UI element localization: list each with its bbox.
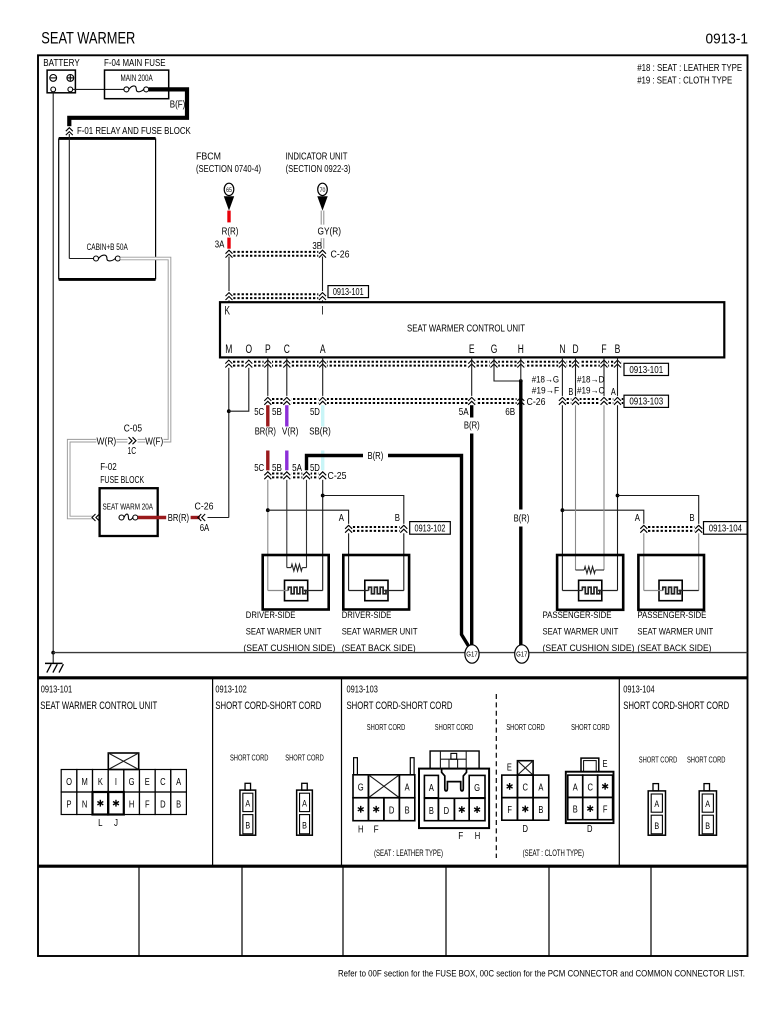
svg-text:#18→G: #18→G — [532, 374, 559, 384]
label seat cloth type — [523, 848, 584, 858]
svg-text:E: E — [469, 344, 475, 356]
svg-text:L: L — [98, 818, 103, 829]
connector C-26 pin 6A — [195, 501, 214, 535]
thermostat passenger cushion — [576, 567, 605, 574]
wire pin P stub — [267, 357, 269, 397]
junction B branch — [616, 494, 620, 498]
connector C-26 row (5C 5B 5D 5A 6B) — [264, 396, 546, 408]
svg-text:G17: G17 — [516, 650, 527, 659]
svg-text:F: F — [601, 344, 606, 356]
svg-text:FBCM: FBCM — [196, 152, 221, 163]
svg-text:D: D — [572, 344, 578, 356]
svg-text:F-04 MAIN FUSE: F-04 MAIN FUSE — [104, 58, 166, 69]
svg-text:N: N — [559, 344, 565, 356]
heater element driver back — [349, 580, 404, 600]
svg-text:F: F — [458, 831, 463, 842]
svg-text:B: B — [429, 805, 434, 817]
connector C-05 pin 1C — [124, 422, 142, 457]
svg-text:A: A — [611, 387, 616, 398]
svg-text:B: B — [538, 804, 543, 816]
svg-text:SEAT WARMER UNIT: SEAT WARMER UNIT — [637, 627, 713, 637]
wire B(F) battery feed — [69, 89, 187, 127]
svg-text:(SEAT CUSHION SIDE): (SEAT CUSHION SIDE) — [543, 643, 635, 653]
svg-text:5B: 5B — [272, 462, 282, 474]
svg-text:1C: 1C — [128, 445, 137, 457]
svg-text:B: B — [615, 344, 621, 356]
wire B branch to connector B 0913-104 — [618, 496, 699, 525]
wire 6B B(R) H pin to ground — [505, 381, 529, 646]
wire K to control unit — [228, 257, 230, 303]
svg-text:A: A — [339, 512, 344, 524]
svg-text:FUSE BLOCK: FUSE BLOCK — [100, 474, 144, 486]
svg-text:B: B — [245, 820, 250, 831]
svg-text:A: A — [429, 782, 434, 794]
cloth male connector 0913-103 — [566, 758, 614, 835]
svg-text:DRIVER-SIDE: DRIVER-SIDE — [246, 610, 296, 620]
indicator unit module — [286, 152, 351, 175]
svg-text:B: B — [573, 804, 578, 816]
svg-text:E: E — [145, 776, 150, 788]
svg-text:B(F): B(F) — [170, 99, 186, 111]
svg-text:SB(R): SB(R) — [309, 426, 331, 438]
svg-text:C-26: C-26 — [527, 396, 546, 408]
svg-text:B: B — [705, 821, 710, 832]
svg-text:BR(R): BR(R) — [255, 426, 276, 438]
connector row 0913-101 top (K I) — [225, 286, 369, 301]
wire B(F) inside F-01 to fuse — [69, 134, 93, 259]
svg-text:SHORT CORD-SHORT CORD: SHORT CORD-SHORT CORD — [347, 700, 453, 712]
svg-text:6A: 6A — [200, 522, 210, 534]
svg-text:B(R): B(R) — [368, 450, 384, 462]
svg-text:0913-102: 0913-102 — [415, 524, 446, 535]
wire pin D stub — [575, 357, 577, 397]
svg-text:G: G — [129, 776, 135, 788]
driver-side seat warmer unit (seat back side) — [342, 555, 418, 653]
svg-text:F-02: F-02 — [100, 461, 117, 473]
battery — [43, 58, 80, 93]
svg-text:H: H — [475, 831, 481, 842]
wire pin G branch to H — [494, 357, 521, 381]
svg-text:5D: 5D — [310, 406, 320, 418]
svg-text:W(F): W(F) — [145, 435, 163, 447]
svg-text:SEAT WARMER CONTROL UNIT: SEAT WARMER CONTROL UNIT — [407, 322, 525, 334]
fuse CABIN+B 50A — [87, 242, 128, 261]
svg-text:SHORT CORD: SHORT CORD — [367, 722, 406, 732]
svg-text:G: G — [491, 344, 498, 356]
wire A into passenger back unit — [643, 533, 645, 590]
wire B(R) from C-25 5A to ground — [292, 450, 469, 646]
junction 5C branch — [266, 508, 270, 512]
leather female connector 0913-103 — [353, 758, 415, 836]
short cord connector A/B right 0913-104 — [699, 784, 716, 836]
connector 65 FBCM — [224, 183, 234, 210]
svg-text:(SEAT : LEATHER TYPE): (SEAT : LEATHER TYPE) — [374, 848, 443, 858]
passenger-side seat warmer unit (seat cushion side) — [543, 555, 635, 653]
svg-text:INDICATOR UNIT: INDICATOR UNIT — [286, 152, 348, 163]
svg-text:(SEAT : CLOTH TYPE): (SEAT : CLOTH TYPE) — [523, 848, 584, 858]
svg-text:MAIN 200A: MAIN 200A — [121, 73, 153, 83]
wire 5C branch to connector A 0913-102 — [268, 510, 349, 525]
label seat leather type — [374, 848, 443, 858]
svg-text:B: B — [568, 387, 573, 398]
fuse F-04 MAIN FUSE MAIN 200A — [104, 58, 169, 99]
svg-text:#18→D: #18→D — [577, 374, 605, 384]
svg-text:A: A — [538, 782, 543, 794]
svg-text:0913-103: 0913-103 — [347, 685, 379, 696]
wire F to thermostat — [603, 405, 605, 570]
ground G17 driver — [465, 645, 479, 663]
leather male connector 0913-103 — [419, 751, 489, 842]
svg-text:B(R): B(R) — [514, 512, 530, 524]
wire pin F stub — [603, 357, 605, 397]
svg-text:(SEAT BACK SIDE): (SEAT BACK SIDE) — [342, 643, 416, 653]
svg-text:BR(R): BR(R) — [168, 512, 189, 524]
svg-text:B: B — [689, 512, 694, 524]
heater element passenger cushion — [562, 580, 617, 600]
panel 0913-101 seat warmer control unit connector — [40, 685, 186, 829]
svg-text:A: A — [320, 344, 326, 356]
svg-text:0913-102: 0913-102 — [215, 685, 246, 696]
svg-text:E: E — [507, 762, 512, 773]
svg-text:SEAT WARMER UNIT: SEAT WARMER UNIT — [246, 627, 322, 637]
svg-text:PASSENGER-SIDE: PASSENGER-SIDE — [637, 610, 706, 620]
svg-text:B: B — [176, 798, 181, 810]
wire N branch to connector A 0913-104 — [562, 510, 643, 525]
connector row 0913-101 bottom — [225, 359, 669, 376]
wire 5D SB(R) A pin — [309, 405, 331, 474]
svg-text:SEAT WARMER: SEAT WARMER — [41, 29, 135, 48]
ground symbol chassis — [45, 653, 63, 673]
svg-text:A: A — [405, 781, 410, 793]
svg-text:D: D — [587, 824, 593, 835]
wire I to control unit — [322, 257, 324, 303]
passenger-side seat warmer unit (seat back side) — [637, 555, 713, 653]
wire GY(R) pin 3B — [312, 211, 341, 252]
svg-text:SHORT CORD: SHORT CORD — [687, 755, 726, 765]
junction N branch — [561, 508, 565, 512]
wire B into driver back unit — [403, 533, 405, 590]
svg-text:A: A — [654, 799, 659, 810]
svg-text:V(R): V(R) — [282, 426, 298, 438]
svg-text:70: 70 — [320, 187, 326, 194]
wire W(R)/W(F) white wire from CABIN+B fuse to F-02 — [69, 259, 170, 518]
wire battery negative to ground — [51, 92, 55, 655]
svg-text:SEAT WARMER UNIT: SEAT WARMER UNIT — [543, 627, 619, 637]
wire B into passenger back unit — [698, 533, 700, 590]
svg-text:H: H — [129, 798, 135, 810]
svg-text:F: F — [374, 825, 379, 836]
driver-side seat warmer unit (seat cushion side) — [243, 555, 335, 653]
svg-text:C-25: C-25 — [328, 470, 347, 482]
svg-text:5A: 5A — [459, 406, 469, 418]
svg-text:A: A — [573, 781, 578, 793]
svg-text:0913-103: 0913-103 — [629, 397, 663, 408]
panel 0913-102 short cord-short cord — [215, 685, 323, 836]
svg-text:5C: 5C — [254, 462, 264, 474]
svg-text:D: D — [160, 798, 166, 810]
svg-text:H: H — [518, 344, 524, 356]
svg-text:C: C — [284, 344, 290, 356]
junction M/O — [227, 409, 231, 413]
svg-text:F-01 RELAY AND FUSE BLOCK: F-01 RELAY AND FUSE BLOCK — [77, 125, 191, 137]
svg-text:M: M — [82, 776, 88, 788]
connector 0913-102 row A B — [339, 512, 451, 534]
svg-text:M: M — [225, 344, 232, 356]
connector C-26 row pins 3A 3B — [225, 249, 350, 261]
svg-text:#19→C: #19→C — [577, 385, 605, 395]
svg-text:SHORT CORD: SHORT CORD — [435, 722, 474, 732]
wire pin C stub — [286, 357, 288, 397]
wire pin E stub — [471, 357, 473, 397]
footer note — [338, 969, 745, 980]
wire pin H stub — [520, 357, 522, 381]
svg-text:G17: G17 — [466, 650, 477, 659]
svg-text:B: B — [395, 512, 400, 524]
short cord connector A/B left 0913-104 — [648, 784, 665, 836]
ground bus — [53, 652, 747, 654]
wire pin B stub — [617, 357, 619, 397]
svg-text:SEAT WARMER UNIT: SEAT WARMER UNIT — [342, 627, 418, 637]
wire R(R) pin 3A — [215, 211, 239, 251]
svg-text:#19→F: #19→F — [532, 385, 560, 395]
svg-text:A: A — [302, 798, 307, 809]
wire 5D branch to connector B 0913-102 — [323, 496, 404, 525]
svg-text:0913-1: 0913-1 — [706, 31, 749, 48]
svg-text:I: I — [115, 776, 117, 788]
svg-text:C: C — [587, 781, 593, 793]
svg-text:(SEAT CUSHION SIDE): (SEAT CUSHION SIDE) — [243, 643, 335, 653]
svg-text:0913-104: 0913-104 — [623, 685, 655, 696]
svg-text:C-26: C-26 — [195, 501, 214, 513]
svg-text:SHORT CORD: SHORT CORD — [230, 752, 269, 762]
svg-text:(SECTION 0922-3): (SECTION 0922-3) — [286, 164, 351, 175]
wire 6A to control unit pin M — [208, 357, 229, 517]
svg-text:W(R): W(R) — [97, 435, 117, 447]
svg-text:CABIN+B 50A: CABIN+B 50A — [87, 242, 128, 252]
svg-text:F: F — [145, 798, 150, 810]
cloth female connector 0913-103 — [502, 761, 549, 835]
heater element driver cushion — [268, 580, 323, 600]
svg-text:O: O — [66, 776, 72, 788]
svg-text:(SEAT BACK SIDE): (SEAT BACK SIDE) — [637, 643, 711, 653]
svg-text:65: 65 — [226, 187, 232, 194]
panel 0913-104 short cord-short cord — [623, 685, 729, 765]
svg-text:6B: 6B — [505, 406, 515, 418]
svg-text:P: P — [265, 344, 271, 356]
ground G17 passenger — [515, 645, 529, 663]
cloth short cord labels — [506, 722, 609, 732]
svg-text:F: F — [603, 804, 608, 816]
svg-text:H: H — [358, 825, 364, 836]
svg-text:SHORT CORD: SHORT CORD — [639, 755, 678, 765]
svg-text:B: B — [405, 804, 410, 816]
svg-text:C: C — [523, 782, 529, 794]
svg-text:B: B — [302, 820, 307, 831]
svg-text:A: A — [245, 798, 250, 809]
svg-text:G: G — [358, 781, 364, 793]
svg-text:K: K — [98, 776, 103, 788]
svg-text:B: B — [654, 821, 659, 832]
svg-text:5B: 5B — [272, 406, 282, 418]
wire BR(R) pin 6A from SEAT WARM fuse — [138, 512, 200, 524]
svg-text:DRIVER-SIDE: DRIVER-SIDE — [342, 610, 392, 620]
wire A into driver back unit — [348, 533, 350, 590]
thermostat driver cushion — [287, 564, 307, 571]
wire 5A to thermostat — [306, 480, 308, 568]
svg-text:G: G — [474, 782, 480, 794]
svg-text:(SECTION 0740-4): (SECTION 0740-4) — [196, 164, 261, 175]
svg-text:GY(R): GY(R) — [318, 226, 342, 238]
svg-text:Refer to 00F section for the F: Refer to 00F section for the FUSE BOX, 0… — [338, 969, 745, 980]
page number 0913-1 — [706, 31, 749, 48]
svg-text:J: J — [114, 818, 118, 829]
heater element passenger back — [644, 580, 699, 600]
svg-text:#18 : SEAT : LEATHER TYPE: #18 : SEAT : LEATHER TYPE — [637, 63, 742, 74]
FBCM module — [196, 152, 261, 175]
svg-text:C-26: C-26 — [331, 249, 350, 261]
svg-text:E: E — [603, 759, 608, 770]
svg-text:C: C — [160, 776, 166, 788]
wire B pin to passenger cushion heater — [617, 405, 619, 590]
connector 70 indicator unit — [317, 183, 327, 210]
svg-text:SHORT CORD: SHORT CORD — [506, 722, 545, 732]
connector 0913-103 row (N D / F B) — [532, 374, 669, 407]
panel 0913-103 short cord-short cord — [347, 685, 474, 732]
svg-text:3A: 3A — [215, 238, 225, 250]
wire D to thermostat — [575, 405, 577, 570]
connector C-25 row — [264, 470, 347, 482]
svg-text:PASSENGER-SIDE: PASSENGER-SIDE — [543, 610, 612, 620]
svg-text:O: O — [246, 344, 253, 356]
svg-text:BATTERY: BATTERY — [43, 58, 80, 69]
svg-text:SEAT WARM 20A: SEAT WARM 20A — [103, 501, 154, 511]
svg-text:A: A — [176, 776, 181, 788]
svg-text:N: N — [82, 798, 88, 810]
svg-text:SHORT CORD-SHORT CORD: SHORT CORD-SHORT CORD — [623, 700, 729, 712]
title SEAT WARMER — [41, 29, 135, 48]
fuse block F-02 — [92, 461, 158, 536]
wire 5C BR(R) P pin — [254, 405, 276, 474]
svg-text:0913-101: 0913-101 — [333, 287, 364, 298]
svg-text:R(R): R(R) — [222, 226, 239, 238]
junction G/H — [519, 379, 523, 383]
svg-text:SHORT CORD: SHORT CORD — [285, 752, 324, 762]
svg-text:D: D — [444, 805, 450, 817]
connector into F-01 — [65, 126, 73, 135]
junction 5D branch — [321, 494, 325, 498]
relay and fuse block F-01 — [59, 125, 191, 279]
wire pin A stub — [322, 357, 324, 397]
wire 5D to driver cushion heater — [322, 480, 324, 591]
connector 0913-104 row A B — [635, 512, 748, 534]
svg-text:0913-101: 0913-101 — [41, 685, 72, 696]
svg-text:0913-104: 0913-104 — [709, 524, 743, 535]
svg-text:5A: 5A — [292, 462, 302, 474]
svg-text:5C: 5C — [254, 406, 264, 418]
svg-text:D: D — [523, 824, 529, 835]
wire 5B to thermostat — [286, 480, 288, 568]
svg-text:D: D — [389, 804, 395, 816]
wire pin N stub — [561, 357, 563, 397]
svg-text:#19 : SEAT : CLOTH TYPE: #19 : SEAT : CLOTH TYPE — [637, 75, 732, 86]
wire 5C to driver cushion heater — [267, 480, 269, 591]
svg-text:A: A — [635, 512, 640, 524]
svg-text:K: K — [225, 305, 231, 317]
svg-text:F: F — [507, 804, 512, 816]
wire N to passenger cushion heater — [561, 405, 563, 590]
seat warmer control unit — [220, 302, 724, 357]
svg-text:SEAT WARMER CONTROL UNIT: SEAT WARMER CONTROL UNIT — [40, 700, 157, 712]
wire 5A B(R) E pin to ground — [459, 405, 480, 646]
legend seat types — [637, 63, 742, 86]
wire O branch — [229, 367, 249, 411]
wire 5B V(R) C pin — [272, 405, 298, 474]
svg-text:SHORT CORD: SHORT CORD — [571, 722, 610, 732]
svg-text:P: P — [67, 798, 72, 810]
svg-text:I: I — [321, 305, 323, 317]
wire battery to main fuse — [73, 88, 124, 90]
svg-text:0913-101: 0913-101 — [629, 365, 663, 376]
svg-text:A: A — [705, 799, 710, 810]
svg-text:B(R): B(R) — [464, 420, 480, 432]
svg-text:SHORT CORD-SHORT CORD: SHORT CORD-SHORT CORD — [215, 700, 321, 712]
svg-text:C-05: C-05 — [124, 422, 142, 434]
